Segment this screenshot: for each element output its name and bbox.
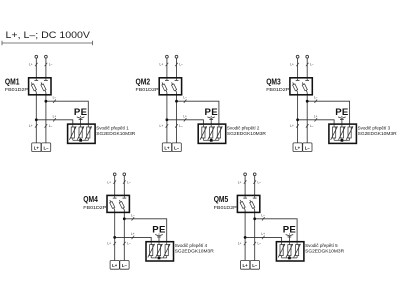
svg-text:QM4: QM4 <box>83 194 98 204</box>
svg-text:Svodič přepětí 3: Svodič přepětí 3 <box>358 125 391 130</box>
svg-text:QM1: QM1 <box>5 76 20 86</box>
svg-text:Svodič přepětí 5: Svodič přepětí 5 <box>305 243 338 248</box>
svg-text:Svodič přepětí 4: Svodič přepětí 4 <box>175 243 208 248</box>
svg-text:Svodič přepětí 2: Svodič přepětí 2 <box>227 125 260 130</box>
svg-text:QM2: QM2 <box>136 76 151 86</box>
svg-text:Svodič přepětí 1: Svodič přepětí 1 <box>96 125 129 130</box>
svg-text:QM3: QM3 <box>266 76 281 86</box>
svg-text:QM5: QM5 <box>214 194 229 204</box>
svg-text:L+, L–; DC 1000V: L+, L–; DC 1000V <box>6 30 91 40</box>
